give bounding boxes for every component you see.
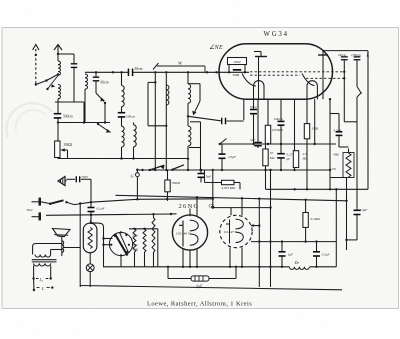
svg-text:KΩ: KΩ <box>269 156 275 160</box>
faint watermark arc <box>6 103 52 138</box>
wire x270 down <box>270 170 272 287</box>
capacitor 1uF <box>281 242 283 252</box>
svg-text:W.: W. <box>178 61 183 66</box>
coil L6 cathode winding <box>166 85 169 105</box>
switch S3 arm lower <box>98 124 111 133</box>
capacitor 3,5uF <box>316 242 318 252</box>
switch S8 on bus y170 <box>172 165 184 170</box>
wire x346 down <box>346 178 348 251</box>
coil L1b antenna <box>58 85 61 99</box>
electrolytic 6uF <box>167 267 169 279</box>
switch S2 arm <box>96 93 104 102</box>
capacitor grid series <box>221 118 226 125</box>
grid dashes right system <box>306 77 344 79</box>
svg-text:WG34: WG34 <box>264 31 289 38</box>
wire grid coupling y118 <box>188 116 221 121</box>
svg-text:30KΩ: 30KΩ <box>172 181 181 185</box>
capacitor 500cm (tuning) <box>118 112 126 118</box>
svg-text:110-127 V: 110-127 V <box>224 230 238 234</box>
switch S4 arm <box>194 101 201 115</box>
antenna arrow A2 <box>54 45 62 51</box>
selector blade thin <box>120 233 129 253</box>
capacitor 0,25uF <box>280 144 282 153</box>
svg-text:3MΩ: 3MΩ <box>233 73 240 77</box>
cathode lead left system <box>258 57 260 100</box>
cathode heater symbol left <box>255 56 267 58</box>
resistor 0,05M <box>267 99 269 125</box>
svg-text:26NG: 26NG <box>179 203 200 210</box>
wire grid bus y72 <box>85 71 128 73</box>
resistor tap aux <box>133 229 136 252</box>
coil L4 <box>122 126 125 147</box>
svg-text:30KΩ: 30KΩ <box>64 143 73 147</box>
supply bus y241 <box>251 241 336 243</box>
wire mains to trafo x80 <box>79 203 81 287</box>
svg-text:1μF: 1μF <box>288 253 294 257</box>
variable capacitor arrow <box>161 165 165 169</box>
output trafo primary <box>35 255 51 258</box>
wire screen lead x314 <box>314 99 316 144</box>
coil L3 tuning top <box>121 72 123 85</box>
switch S7 on bus y170 <box>149 169 151 171</box>
speaker voice coil <box>61 237 63 256</box>
wire loop right x200 <box>188 83 200 85</box>
wire x259 down <box>258 199 260 287</box>
capacitor 0,1uF mains <box>88 207 95 213</box>
svg-text:5000: 5000 <box>82 175 89 179</box>
cathode U shape left <box>254 81 265 100</box>
svg-text:∠NE: ∠NE <box>209 44 223 51</box>
svg-text:5μF: 5μF <box>206 175 212 179</box>
anode curve left system <box>242 74 256 87</box>
potentiometer 30K <box>55 141 60 158</box>
svg-text:500cm: 500cm <box>63 115 73 119</box>
cathode coil line x166 <box>165 72 167 170</box>
resistor 50K <box>265 144 267 149</box>
coil L8 secondary <box>187 72 189 84</box>
pot wiper arrow <box>60 148 65 151</box>
svg-text:150-240 V: 150-240 V <box>176 231 191 235</box>
resistor 30K supply <box>167 170 169 180</box>
cathode lead right system <box>322 55 324 99</box>
wire bus y158 wiper to tuning <box>58 158 188 160</box>
terminal L2 <box>33 266 35 279</box>
coil L1a antenna <box>58 61 61 75</box>
terminal G <box>136 169 138 171</box>
wire antenna top to cap branch <box>58 53 74 55</box>
capacitor 60cm <box>95 72 97 76</box>
svg-text:Loewe, Ratsherr, Allstrom, 1 K: Loewe, Ratsherr, Allstrom, 1 Kreis <box>147 300 252 307</box>
svg-text:200Ω: 200Ω <box>234 60 242 64</box>
ground bus y267 <box>103 266 289 268</box>
svg-text:Netz: Netz <box>26 208 34 212</box>
rail y189 <box>266 188 369 190</box>
wire 50K bottom to rail <box>265 170 267 189</box>
capacitor 2,5uF <box>221 144 223 154</box>
svg-text:G: G <box>131 174 134 179</box>
anode curve right system <box>302 74 315 86</box>
wire x336 down to choke <box>335 189 337 266</box>
tube 26NG envelope <box>172 215 207 250</box>
bottom rail y287 <box>80 286 342 290</box>
svg-text:500cm: 500cm <box>126 115 136 119</box>
wire Gl terminal column x213 <box>212 170 214 207</box>
capacitor 50cm series <box>128 69 134 77</box>
selector box right edge <box>157 229 159 267</box>
coil L5 <box>134 125 137 147</box>
heater symbol right <box>318 54 328 56</box>
coil L9 reaction <box>187 116 189 126</box>
wire plate lead x243 <box>243 99 245 120</box>
wire right rail x368 <box>367 51 369 190</box>
mains line top y201 <box>74 202 91 204</box>
wire anode lead x330 <box>329 99 331 189</box>
cathode U shape right <box>307 81 317 99</box>
svg-text:40Ω: 40Ω <box>333 153 339 157</box>
voltage selector dial <box>109 232 132 255</box>
selector box <box>91 222 100 224</box>
antenna arrow A1 (dashed) <box>33 45 39 51</box>
tube Gl electrodes <box>226 220 230 244</box>
wire junction to 500cm cap <box>57 102 59 114</box>
resistor 0,035M <box>204 170 206 183</box>
wire heater rail y50 <box>323 50 368 52</box>
tube Gl leads <box>211 206 214 209</box>
wire trafo primary to speaker <box>33 244 62 255</box>
wire speaker to mains rail <box>64 247 81 249</box>
selector blade thick <box>115 234 128 256</box>
loop around L9 <box>190 121 201 123</box>
selector top bus y228 <box>129 228 158 230</box>
wire bottom of RC y177 <box>330 177 349 179</box>
mains plug <box>32 201 40 203</box>
svg-text:Dr: Dr <box>294 260 300 265</box>
switch S6 on bus <box>219 143 221 145</box>
grid dashes left system <box>250 71 344 73</box>
barretter tube <box>83 223 97 253</box>
dial lamp <box>89 253 91 264</box>
capacitor 500cm (antenna) <box>54 113 62 119</box>
grid resistor box 200 in tube <box>228 58 247 65</box>
selector bottom lead <box>120 255 122 266</box>
earth symbol <box>58 177 65 186</box>
chassis bus y170 <box>136 169 330 171</box>
coil L2 input <box>85 74 88 89</box>
tube WG34 envelope <box>219 44 333 99</box>
anode bar and label 3M <box>233 69 241 71</box>
selector taps left <box>104 238 113 240</box>
electrolytic 5uF <box>200 169 202 171</box>
output trafo core <box>32 259 57 261</box>
wire antenna coil bottom <box>57 99 59 102</box>
svg-text:50: 50 <box>270 151 274 155</box>
main bus y144 <box>221 143 336 145</box>
tube 26NG electrodes <box>179 221 183 247</box>
svg-text:10Kcm: 10Kcm <box>274 117 284 121</box>
resistor 0,1M <box>303 213 308 228</box>
padder loop x148 <box>148 81 155 83</box>
Gl anode stub <box>251 225 259 227</box>
resistor 2,5M grid leak <box>294 99 296 151</box>
tube Gl envelope dashed <box>220 215 252 247</box>
mains switch <box>41 202 50 204</box>
rail y195 <box>116 195 347 201</box>
trimmer capacitor antenna <box>71 63 78 68</box>
wire y216 grid feed <box>171 213 177 215</box>
svg-text:L₂: L₂ <box>39 278 44 282</box>
resistor 1M <box>306 99 308 123</box>
wire bus y122 <box>57 122 110 124</box>
selector contacts <box>120 231 122 233</box>
tube 26NG leads <box>189 209 191 217</box>
switch S5 in heater line <box>357 87 362 94</box>
wire screen feed y113 <box>330 113 339 115</box>
terminal L <box>33 279 35 291</box>
speaker cone <box>53 229 71 237</box>
variable capacitor C-var line left <box>154 72 156 170</box>
output trafo secondary <box>34 263 51 266</box>
mains line bottom y214 <box>46 214 171 215</box>
svg-text:60cm: 60cm <box>101 81 109 85</box>
band switch linkage W <box>153 63 159 70</box>
svg-text:50cm: 50cm <box>135 67 143 71</box>
band switch S1 arms <box>47 74 59 80</box>
